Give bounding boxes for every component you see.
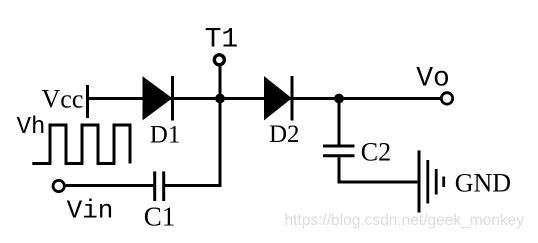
svg-text:Vcc: Vcc (42, 85, 84, 114)
svg-text:Vo: Vo (416, 64, 450, 95)
svg-text:https://blog.csdn.net/geek_mon: https://blog.csdn.net/geek_monkey (285, 212, 525, 229)
svg-text:T1: T1 (205, 24, 239, 55)
svg-text:D1: D1 (150, 122, 181, 149)
svg-text:C1: C1 (144, 201, 176, 231)
svg-text:Vh: Vh (17, 114, 46, 141)
svg-text:Vin: Vin (67, 196, 114, 226)
svg-text:GND: GND (455, 169, 511, 198)
svg-text:C2: C2 (361, 137, 391, 166)
svg-text:D2: D2 (269, 121, 300, 148)
